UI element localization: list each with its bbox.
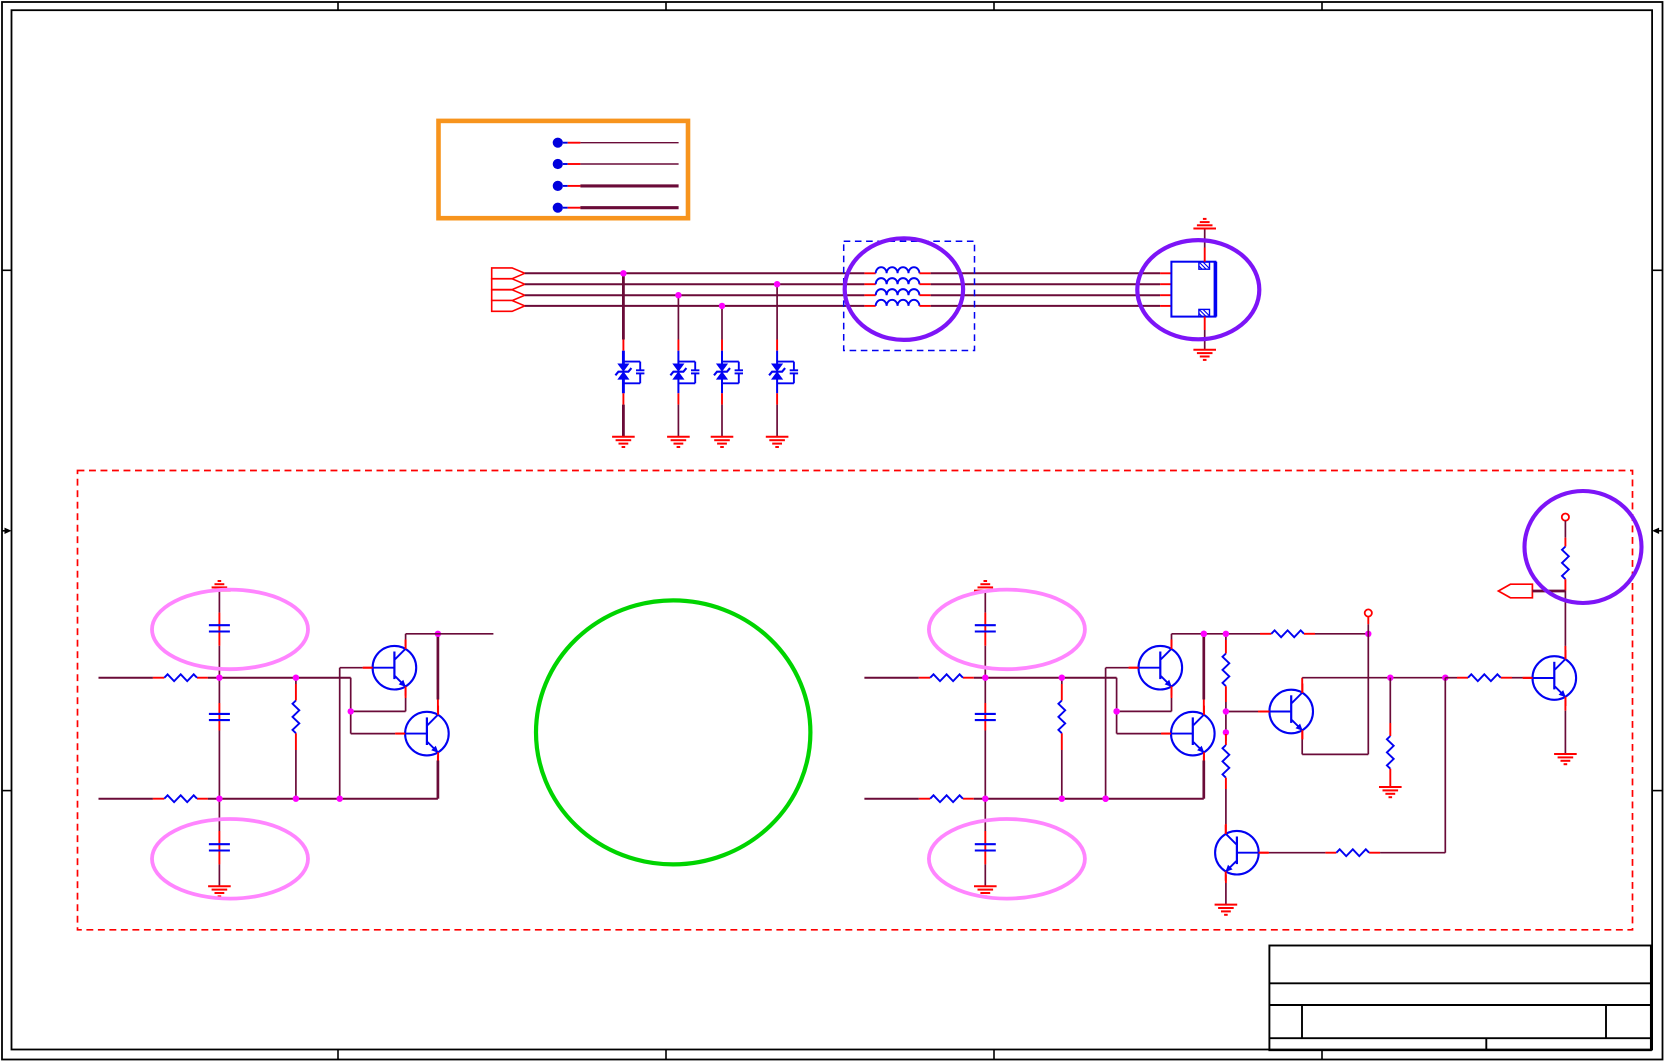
junction dot on bus line at x=623 xyxy=(620,270,626,276)
transistor Q6 mirrored xyxy=(1215,825,1268,881)
Q5 emitter wire xyxy=(1301,730,1303,754)
ground bottom left xyxy=(208,886,231,896)
wire bus line 4 coil pin right xyxy=(919,305,930,307)
ground below TVS 3 xyxy=(711,437,734,447)
wire bus line 2 left segment xyxy=(525,283,865,285)
border zone ticks bottom xyxy=(338,1050,1322,1060)
orange group box xyxy=(439,121,689,218)
junction dot on bus line at x=678 xyxy=(675,292,681,298)
left subcircuit top rail xyxy=(406,633,494,635)
wire1 corner dot right xyxy=(1113,708,1119,714)
wire to upper transistor base left xyxy=(340,668,373,799)
right top rail xyxy=(1172,633,1261,635)
junction dot output2 xyxy=(1442,675,1448,681)
resistor R9 horizontal xyxy=(1468,674,1501,681)
wire flag to node thick xyxy=(1532,590,1565,593)
junction dot output1 xyxy=(1387,675,1393,681)
wire below R5 xyxy=(1225,686,1227,741)
resistor R1 left xyxy=(164,674,197,681)
wire1 left xyxy=(99,678,351,712)
junction dot chain mid xyxy=(1223,729,1229,735)
Q6 base wire with R7 xyxy=(1259,678,1446,853)
connector pin 1 stub xyxy=(1160,272,1171,274)
inductor L2 xyxy=(876,278,920,284)
junction dot emitter-base left xyxy=(348,708,354,714)
wire bus line 3 coil pin left xyxy=(864,294,875,296)
inductor L1 xyxy=(876,267,920,273)
wire drop to TVS 1 xyxy=(622,273,625,350)
title block row line 2 xyxy=(1269,1004,1651,1006)
junction dots right xyxy=(982,631,1207,802)
transistor Q-upper left xyxy=(363,640,416,696)
wire Q-lower emitter thick left xyxy=(437,755,439,798)
resistor R6 vertical xyxy=(1223,745,1230,778)
wire TVS 4 to ground xyxy=(776,393,778,437)
pink ellipse bottom left xyxy=(152,819,308,899)
ground below R8 xyxy=(1379,787,1402,797)
junction dot on bus line at x=777 xyxy=(774,281,780,287)
wire bus line 3 left segment xyxy=(525,294,865,296)
wire bus line 3 right segment xyxy=(931,294,1160,296)
wire TVS 2 to ground xyxy=(677,393,679,437)
input port arrow 4 xyxy=(492,301,525,312)
transistor Q5 xyxy=(1260,684,1313,740)
transistor Q-lower right xyxy=(1161,706,1214,762)
inverted ground top left xyxy=(208,581,231,591)
transistor Q7 xyxy=(1523,650,1576,706)
capacitor C-mid left xyxy=(209,714,230,720)
TVS diode D1 with cap xyxy=(615,351,644,394)
connector shield pad top xyxy=(1199,262,1210,269)
rail dot chain xyxy=(1223,631,1229,637)
border zone ticks left xyxy=(2,270,12,790)
ground below TVS 1 xyxy=(612,437,635,447)
resistor R2 left xyxy=(164,795,197,802)
connector pin 4 stub xyxy=(1160,305,1171,307)
resistor R1 right xyxy=(930,674,963,681)
ground below TVS 2 xyxy=(667,437,690,447)
connector bottom ground wire xyxy=(1204,317,1206,350)
inverted ground top right xyxy=(974,581,997,591)
wire bus line 2 coil pin left xyxy=(864,283,875,285)
junction dot rail terminal xyxy=(1365,631,1371,637)
wire drop to TVS 4 xyxy=(776,284,778,351)
wire bus line 2 coil pin right xyxy=(919,283,930,285)
wire bus line 2 right segment xyxy=(931,283,1160,285)
title block divider right xyxy=(1605,1005,1607,1038)
ground below TVS 4 xyxy=(766,437,789,447)
net stub 2 in orange box xyxy=(553,159,679,169)
title block row line 3 xyxy=(1269,1037,1651,1039)
pink ellipse top left xyxy=(152,590,308,670)
inverted ground above connector xyxy=(1193,219,1216,229)
wire terminal node down xyxy=(1302,634,1368,755)
TVS diode D3 with cap xyxy=(714,351,743,394)
inductor L4 xyxy=(876,300,920,306)
input port arrow 1 xyxy=(492,268,525,279)
connector J1 right edge thick xyxy=(1214,262,1218,317)
wire Q-upper collector right xyxy=(1171,634,1173,646)
resistor R10 vertical xyxy=(1562,547,1569,580)
vertical rail left xyxy=(218,591,220,887)
wire Q-upper collector left xyxy=(405,634,407,646)
title block row line 1 xyxy=(1269,982,1651,984)
wire2 left xyxy=(99,798,438,800)
wire TVS 1 to ground xyxy=(622,393,624,437)
wire2 dot lineA right xyxy=(1102,796,1108,802)
resistor R8 to ground xyxy=(1389,678,1391,787)
red stub below chain dot xyxy=(1225,734,1227,745)
title block divider left xyxy=(1301,1005,1303,1038)
transistor Q-lower left xyxy=(395,706,448,762)
capacitor C-mid right xyxy=(975,714,996,720)
dashed box around choke xyxy=(844,241,975,350)
net stub 3 in orange box xyxy=(553,181,679,191)
purple ellipse around connector xyxy=(1137,240,1259,339)
junction dot R5-Q5base xyxy=(1223,708,1229,714)
junction dots left xyxy=(216,631,441,802)
sheet connector arrow left edge xyxy=(2,528,12,534)
Q5 collector wire xyxy=(1301,678,1303,693)
input port arrow 3 xyxy=(492,290,525,301)
capacitor C-bottom left xyxy=(209,844,230,850)
resistor R3 vertical right xyxy=(1061,678,1063,799)
connector J1 body xyxy=(1171,262,1215,317)
Q7 emitter to ground xyxy=(1564,700,1566,754)
pink ellipse bottom right xyxy=(929,819,1085,899)
wire TVS 3 to ground xyxy=(721,393,723,437)
rail dot Q4 collector xyxy=(1201,631,1207,637)
connector pin 2 stub xyxy=(1160,283,1171,285)
connector pin 3 stub xyxy=(1160,294,1171,296)
output wire y677 xyxy=(1302,677,1445,679)
wire bus line 3 coil pin right xyxy=(919,294,930,296)
wire to upper transistor base right xyxy=(1106,668,1139,799)
wire to Q7 base with R9 xyxy=(1445,677,1532,679)
purple ellipse around choke xyxy=(845,238,963,340)
wire bus line 1 coil pin right xyxy=(919,272,930,274)
ground below connector xyxy=(1193,350,1216,360)
inductor L3 xyxy=(876,289,920,295)
resistor R3 vertical left xyxy=(295,678,297,799)
transistor Q-upper right xyxy=(1129,640,1182,696)
vertical rail right xyxy=(984,591,986,887)
TVS diode D2 with cap xyxy=(670,351,699,394)
title block frame xyxy=(1269,946,1651,1051)
capacitor C-top left xyxy=(209,625,230,631)
net stub 1 in orange box xyxy=(553,138,679,148)
rail to terminal node xyxy=(1315,633,1368,635)
wire below R6 to Q6 collector xyxy=(1225,778,1227,834)
wire Q-lower emitter thick right xyxy=(1203,755,1205,798)
rail red stub after R4 xyxy=(1304,633,1315,635)
junction dot on bus line at x=722 xyxy=(719,303,725,309)
wire T2 down to R10 xyxy=(1564,521,1566,547)
wire bus line 4 right segment xyxy=(931,305,1160,307)
purple circle annotation top-right xyxy=(1525,491,1642,603)
input port arrow 2 xyxy=(492,279,525,290)
open terminal circle T2 xyxy=(1562,514,1569,521)
terminal stub up xyxy=(1367,617,1369,634)
wire1 right xyxy=(864,678,1116,712)
resistor R5 vertical xyxy=(1223,654,1230,687)
resistor R4 horizontal top xyxy=(1271,630,1304,637)
rail red stub before R4 xyxy=(1260,633,1271,635)
connector shield pad bottom xyxy=(1199,309,1210,316)
wire Q-lower collector thick right xyxy=(1203,634,1205,713)
net stub 4 in orange box xyxy=(553,203,679,213)
border zone ticks right xyxy=(1652,270,1662,790)
wire emitter-base junction left xyxy=(351,689,406,733)
wire bus line 1 coil pin left xyxy=(864,272,875,274)
sheet connector arrow right edge xyxy=(1652,528,1662,534)
wire emitter-base junction right xyxy=(1117,689,1172,733)
resistor R7 horizontal xyxy=(1336,849,1369,856)
green circle annotation xyxy=(536,600,810,864)
connector top ground wire xyxy=(1204,229,1206,262)
capacitor C-top right xyxy=(975,625,996,631)
title block divider bottom xyxy=(1485,1038,1487,1050)
capacitor C-bottom right xyxy=(975,844,996,850)
Q6 emitter to ground xyxy=(1225,875,1227,905)
wire bus line 4 left segment xyxy=(525,305,865,307)
signal flag arrow xyxy=(1498,584,1532,598)
open terminal circle T1 xyxy=(1365,609,1372,616)
ground below Q7 xyxy=(1554,754,1577,764)
wire Q-lower collector thick left xyxy=(437,634,439,713)
junction dot emitter-base right xyxy=(1113,708,1119,714)
wire bus line 4 coil pin left xyxy=(864,305,875,307)
wire bus line 1 right segment xyxy=(931,272,1160,274)
wire below R10 xyxy=(1564,579,1566,658)
ground below Q6 xyxy=(1215,905,1238,915)
resistor R2 right xyxy=(930,795,963,802)
wire2 right xyxy=(864,798,1203,800)
ground bottom right xyxy=(974,886,997,896)
TVS diode D4 with cap xyxy=(769,351,798,394)
border zone ticks top xyxy=(338,2,1322,10)
wire drop to TVS 2 xyxy=(677,295,679,351)
Q5 base wire xyxy=(1226,711,1270,713)
resistor chain on rail: stub xyxy=(1225,634,1227,654)
wire drop to TVS 3 xyxy=(721,306,723,351)
pink ellipse top right xyxy=(929,590,1085,670)
wire bus line 1 left segment xyxy=(525,272,865,274)
red dashed region box xyxy=(78,471,1633,930)
